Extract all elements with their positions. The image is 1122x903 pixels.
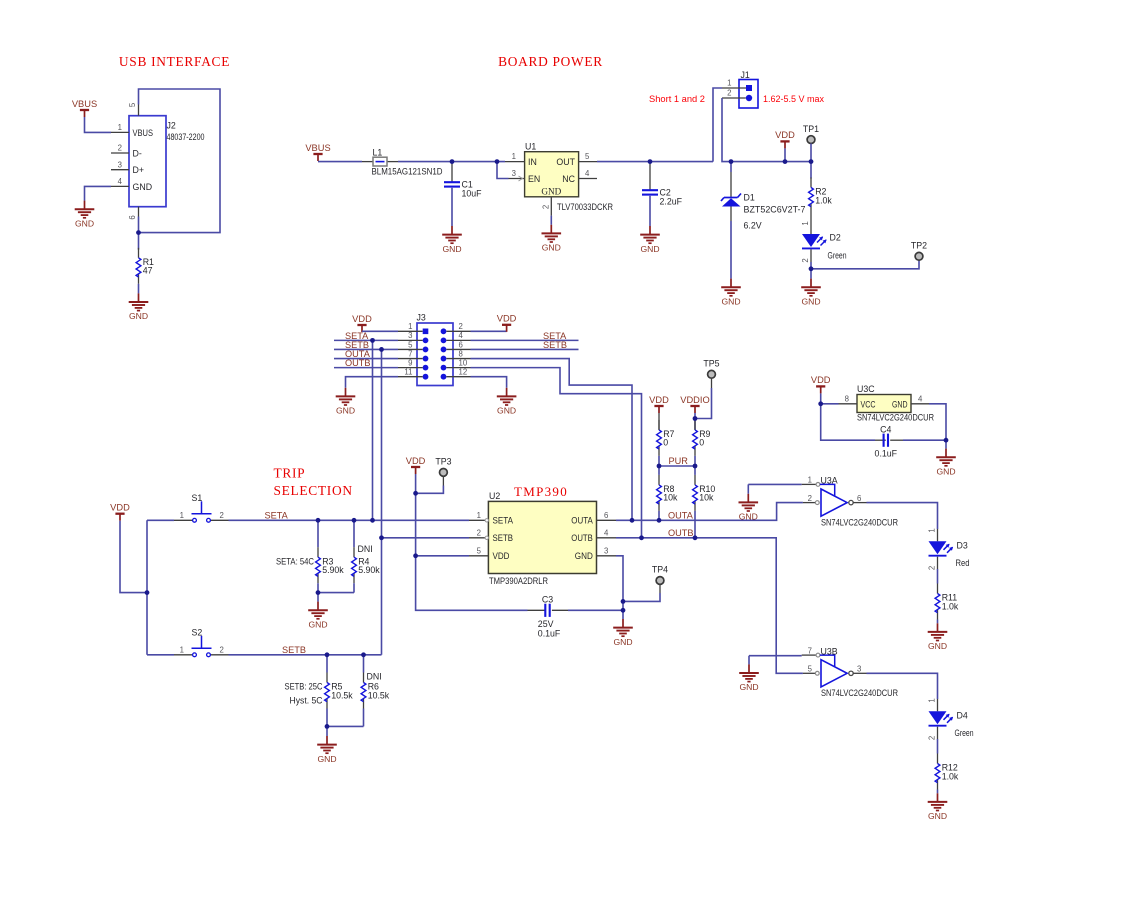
- wire rail to S2: [147, 654, 174, 656]
- LED D2 Green: [801, 232, 847, 268]
- resistor R1 47: [136, 248, 154, 284]
- node U2 VDD tap: [413, 553, 418, 558]
- label Hyst. 5C: [290, 696, 324, 706]
- node SETA/J3 tap: [370, 518, 375, 523]
- svg-text:D4: D4: [957, 710, 968, 720]
- wire J3 pin2 to VDD: [471, 330, 507, 332]
- svg-text:TP2: TP2: [911, 241, 927, 251]
- wire OUTA row to U3A: [616, 503, 803, 521]
- wire C4 to GND: [945, 440, 947, 448]
- svg-text:BZT52C6V2T-7: BZT52C6V2T-7: [744, 204, 806, 214]
- node SETB vertical tap: [379, 347, 384, 352]
- power VBUS (USB): [72, 99, 97, 117]
- svg-text:6.2V: 6.2V: [744, 220, 762, 230]
- switch S1: [174, 493, 229, 522]
- svg-text:SETA: SETA: [265, 511, 289, 521]
- svg-text:GND: GND: [928, 641, 947, 651]
- svg-text:11: 11: [404, 368, 412, 377]
- svg-text:GND: GND: [936, 466, 955, 476]
- svg-text:8: 8: [845, 394, 849, 403]
- wire to TP2: [811, 260, 919, 269]
- svg-text:0.1uF: 0.1uF: [538, 629, 561, 639]
- svg-text:D-: D-: [133, 148, 142, 158]
- wire TP4 to GND node: [623, 584, 660, 601]
- svg-text:GND: GND: [133, 182, 153, 192]
- wire SETA row: [229, 519, 470, 521]
- svg-text:0: 0: [699, 438, 704, 448]
- svg-text:OUTA: OUTA: [571, 516, 593, 526]
- jumper J1: [722, 70, 758, 108]
- svg-text:VDDIO: VDDIO: [680, 395, 709, 405]
- label SETA: 54C: [276, 556, 315, 566]
- node rail junction: [145, 590, 150, 595]
- power VDD (J3 left): [352, 314, 372, 332]
- net label PUR: [669, 456, 689, 466]
- header J3: [398, 312, 471, 385]
- wire VDD to U2 pin5: [416, 555, 469, 557]
- svg-text:1.0k: 1.0k: [815, 195, 832, 205]
- resistor R10 10k: [693, 466, 716, 538]
- svg-text:5: 5: [477, 546, 482, 555]
- svg-text:2: 2: [118, 144, 122, 153]
- node OUTA/J3 tap: [630, 518, 635, 523]
- LED D3 Red: [928, 528, 970, 583]
- svg-text:GND: GND: [317, 754, 336, 764]
- wire J2 pin6 down: [138, 217, 140, 250]
- node EN tap: [495, 159, 500, 164]
- svg-text:0.1uF: 0.1uF: [875, 449, 898, 459]
- svg-text:GND: GND: [575, 551, 593, 561]
- svg-text:IN: IN: [528, 157, 537, 167]
- wire U3A OE to GND: [748, 484, 801, 493]
- svg-text:2: 2: [541, 205, 550, 209]
- resistor R2 1.0k: [801, 162, 832, 234]
- node R3 top: [316, 518, 321, 523]
- svg-text:SN74LVC2G240DCUR: SN74LVC2G240DCUR: [821, 517, 898, 527]
- svg-text:SETA: 54C: SETA: 54C: [276, 556, 315, 566]
- svg-text:1: 1: [180, 511, 184, 520]
- node C4/GND tap: [944, 438, 949, 443]
- svg-text:47: 47: [143, 266, 153, 276]
- LED D4 Green: [928, 698, 974, 753]
- svg-text:2: 2: [928, 736, 937, 740]
- svg-text:TLV70033DCKR: TLV70033DCKR: [557, 202, 613, 212]
- resistor R8 10k: [657, 466, 678, 520]
- node R4 top: [352, 518, 357, 523]
- wire to GND (R5/R6): [326, 726, 328, 736]
- svg-text:0: 0: [663, 438, 668, 448]
- resistor R12 1.0k: [935, 754, 959, 794]
- node TP4 tap: [621, 599, 626, 604]
- svg-text:OUTA: OUTA: [668, 511, 694, 521]
- wire U3C bypass loop right: [903, 404, 946, 440]
- svg-text:VBUS: VBUS: [72, 99, 97, 109]
- power VDD (U2): [406, 456, 426, 474]
- svg-text:1: 1: [512, 152, 516, 161]
- svg-text:D1: D1: [744, 192, 755, 202]
- svg-text:10uF: 10uF: [462, 189, 483, 199]
- node VDD stem tap: [783, 159, 788, 164]
- svg-text:J1: J1: [741, 70, 750, 80]
- node R6 top: [361, 652, 366, 657]
- svg-text:10.5k: 10.5k: [331, 690, 353, 700]
- svg-text:OUT: OUT: [556, 157, 575, 167]
- svg-text:VBUS: VBUS: [305, 143, 330, 153]
- wire PUR net: [659, 465, 695, 467]
- connector J2 48037-2200: [111, 102, 205, 220]
- svg-text:J2: J2: [167, 121, 176, 131]
- svg-text:3: 3: [408, 331, 412, 340]
- wire U3A out to D3: [867, 503, 938, 529]
- node C3 tap: [621, 608, 626, 613]
- wire VBUS to L1: [318, 161, 362, 163]
- title TRIP SELECTION: [274, 466, 353, 498]
- switch S2: [174, 628, 229, 657]
- resistor R11 1.0k: [935, 584, 959, 624]
- power VDD (U3C): [811, 375, 831, 393]
- wire VDD to J3 pin1: [362, 330, 398, 332]
- svg-text:GND: GND: [739, 512, 758, 522]
- wire R6 bottom to R5 bottom: [327, 725, 364, 727]
- ferrite bead L1 BLM15AG121SN1D: [362, 147, 443, 176]
- node OUTB/R10 tap: [693, 535, 698, 540]
- resistor R7 0: [657, 413, 675, 466]
- resistor R9 0: [693, 419, 711, 467]
- node TP1/R2 tap: [809, 159, 814, 164]
- resistor R6 10.5k (DNI): [361, 655, 390, 727]
- wire R4 bottom to R3 bottom: [318, 592, 354, 594]
- ground (below R1): [129, 293, 149, 321]
- svg-text:VDD: VDD: [497, 314, 517, 324]
- ground (below C1): [442, 226, 462, 254]
- ground (U3A OE): [739, 494, 759, 522]
- title TMP390: [514, 484, 568, 499]
- svg-text:TP1: TP1: [803, 124, 819, 134]
- net label OUTA (J3 left): [345, 349, 371, 359]
- svg-text:10k: 10k: [699, 493, 714, 503]
- ground (below R3/R4): [308, 602, 328, 630]
- wire SETB down to trip row: [381, 349, 383, 654]
- svg-text:3: 3: [604, 546, 608, 555]
- ground (USB shield GND): [75, 201, 95, 229]
- svg-text:SETB: SETB: [543, 340, 567, 350]
- wire SETA (J3 pin4 right): [471, 339, 579, 341]
- node R5 top: [325, 652, 330, 657]
- ground (below D1): [721, 279, 741, 307]
- node SETB/U2 tap: [379, 535, 384, 540]
- svg-text:2: 2: [808, 494, 812, 503]
- zener D1 BZT52C6V2T-7 6.2V: [721, 162, 806, 231]
- wire SETB (J3 pin6 right): [471, 348, 579, 350]
- node SETA vertical tap: [370, 338, 375, 343]
- svg-text:7: 7: [808, 646, 812, 655]
- svg-text:1: 1: [477, 511, 481, 520]
- svg-text:2: 2: [477, 528, 481, 537]
- svg-text:OUTB: OUTB: [571, 533, 593, 543]
- svg-text:SELECTION: SELECTION: [274, 483, 353, 498]
- capacitor C4 0.1uF: [875, 424, 903, 458]
- svg-text:4: 4: [118, 177, 123, 186]
- svg-text:1: 1: [118, 123, 122, 132]
- ground (below C2): [640, 226, 660, 254]
- ground (J3 left): [336, 388, 356, 416]
- svg-text:GND: GND: [308, 619, 327, 629]
- ground (below U1): [542, 225, 562, 253]
- wire OUTA (J3 pin7 left): [334, 358, 398, 360]
- svg-text:1.0k: 1.0k: [942, 601, 959, 611]
- wire SETB to U2 pin2: [382, 537, 470, 539]
- svg-text:GND: GND: [928, 811, 947, 821]
- wire SETB row: [229, 654, 382, 656]
- node R5/R6 bottom junction: [325, 724, 330, 729]
- svg-text:Hyst. 5C: Hyst. 5C: [290, 696, 324, 706]
- svg-text:1: 1: [928, 698, 937, 702]
- svg-text:D+: D+: [133, 165, 145, 175]
- svg-text:TMP390A2DRLR: TMP390A2DRLR: [489, 576, 548, 586]
- testpoint TP1: [803, 124, 819, 162]
- node OUTB/J3 tap: [639, 535, 644, 540]
- svg-text:6: 6: [857, 494, 861, 503]
- label Short 1 and 2: [649, 94, 705, 104]
- svg-text:5: 5: [128, 102, 137, 107]
- wire TP5 to VDDIO: [695, 378, 712, 418]
- power VDD (board): [775, 130, 795, 161]
- ground (below R11): [928, 623, 948, 651]
- wire U3B out to D4: [867, 673, 938, 699]
- ground (below R12): [928, 793, 948, 821]
- svg-text:DNI: DNI: [358, 544, 373, 554]
- svg-text:5: 5: [585, 152, 590, 161]
- wire R1 to GND: [138, 284, 140, 294]
- power VDD (trip): [110, 503, 130, 521]
- net label SETA (J3 right): [543, 331, 567, 341]
- svg-text:5: 5: [408, 340, 413, 349]
- svg-text:6: 6: [459, 340, 463, 349]
- svg-text:1: 1: [801, 221, 810, 225]
- svg-text:D3: D3: [957, 540, 968, 550]
- node VDDIO/TP5 tap: [693, 416, 698, 421]
- svg-text:4: 4: [585, 169, 590, 178]
- svg-text:VDD: VDD: [110, 503, 130, 513]
- svg-text:DNI: DNI: [367, 672, 382, 682]
- svg-text:USB INTERFACE: USB INTERFACE: [119, 54, 230, 69]
- node C1 tap: [450, 159, 455, 164]
- power VBUS (board): [305, 143, 330, 161]
- svg-text:10.5k: 10.5k: [368, 690, 390, 700]
- svg-text:GND: GND: [801, 296, 820, 306]
- svg-text:GND: GND: [542, 243, 561, 253]
- node D2 cathode junction: [809, 266, 814, 271]
- label SETB: 25C: [285, 682, 324, 692]
- wire VDD column to C3: [416, 474, 528, 610]
- svg-text:GND: GND: [721, 296, 740, 306]
- svg-text:2: 2: [459, 322, 463, 331]
- regulator U1 TLV70033DCKR: [505, 141, 613, 215]
- svg-text:TMP390: TMP390: [514, 484, 568, 499]
- wire SETB (J3 pin5 left): [334, 348, 398, 350]
- wire VDD to switch rail: [120, 521, 147, 593]
- node C2 tap: [648, 159, 653, 164]
- svg-text:2: 2: [928, 566, 937, 570]
- wire VBUS to J2 pin1: [85, 117, 112, 132]
- wire TP3 to VDD column: [416, 476, 444, 493]
- svg-text:SN74LVC2G240DCUR: SN74LVC2G240DCUR: [857, 413, 934, 423]
- svg-text:SETB: 25C: SETB: 25C: [285, 682, 324, 692]
- svg-text:SETB: SETB: [282, 645, 306, 655]
- svg-text:J3: J3: [417, 312, 426, 322]
- wire J3 pin8 route to OUTA: [471, 359, 633, 521]
- wire D2 to GND: [810, 269, 812, 279]
- wire OUTB (J3 pin9 left): [334, 367, 398, 369]
- capacitor C3 0.1uF 25V: [528, 595, 569, 639]
- IC U2 TMP390A2DRLR: [469, 491, 616, 586]
- svg-text:TP3: TP3: [435, 457, 451, 467]
- svg-text:OUTB: OUTB: [668, 528, 694, 538]
- svg-text:U3C: U3C: [857, 384, 875, 394]
- title USB INTERFACE: [119, 54, 230, 69]
- power VDD (R7): [649, 395, 669, 413]
- svg-text:3: 3: [118, 160, 122, 169]
- testpoint TP4: [652, 565, 668, 585]
- svg-text:SETA: SETA: [493, 516, 514, 526]
- svg-text:4: 4: [459, 331, 464, 340]
- svg-text:BLM15AG121SN1D: BLM15AG121SN1D: [372, 167, 443, 177]
- svg-text:C3: C3: [542, 595, 553, 605]
- svg-text:GND: GND: [75, 218, 94, 228]
- label 1.62-5.5 V max: [763, 94, 824, 104]
- wire U1 GND pin down: [550, 216, 552, 225]
- svg-text:8: 8: [459, 349, 463, 358]
- net label OUTA: [668, 511, 694, 521]
- wire J3 pin11 to GND: [346, 377, 399, 388]
- net label OUTB: [668, 528, 694, 538]
- node pin6/R1 junction: [136, 230, 141, 235]
- svg-text:VDD: VDD: [649, 395, 669, 405]
- svg-text:1.0k: 1.0k: [942, 771, 959, 781]
- net label SETA (J3 left): [345, 331, 369, 341]
- wire U1 OUT to J1 pin1: [597, 88, 722, 162]
- svg-text:10: 10: [459, 358, 468, 367]
- wire J3 pin10 route to OUTB: [471, 368, 642, 538]
- power VDD (J3 right): [497, 314, 517, 332]
- svg-text:Green: Green: [955, 728, 974, 738]
- testpoint TP3: [435, 457, 451, 477]
- wire EN branch: [497, 162, 509, 179]
- resistor R5 10.5k: [325, 655, 354, 727]
- wire J3 pin12 to GND: [471, 377, 507, 388]
- node OUTA/R8 tap: [657, 518, 662, 523]
- svg-text:9: 9: [408, 358, 412, 367]
- ground (below R5/R6): [317, 736, 337, 764]
- svg-text:6: 6: [128, 215, 137, 219]
- svg-text:PUR: PUR: [669, 456, 689, 466]
- svg-text:VCC: VCC: [861, 399, 877, 409]
- wire J2 pin4 to GND: [85, 186, 112, 200]
- svg-text:GND: GND: [442, 244, 461, 254]
- svg-text:VDD: VDD: [775, 130, 795, 140]
- svg-text:VDD: VDD: [493, 551, 510, 561]
- svg-text:4: 4: [918, 394, 923, 403]
- svg-text:GND: GND: [640, 244, 659, 254]
- net label SETA (trip): [265, 511, 289, 521]
- node PUR right: [693, 464, 698, 469]
- wire J1 pin2 to VDD rail: [722, 98, 811, 162]
- wire L1 to U1 IN: [398, 161, 505, 163]
- svg-text:3: 3: [512, 169, 516, 178]
- svg-text:L1: L1: [373, 147, 383, 157]
- svg-text:TP4: TP4: [652, 565, 668, 575]
- wire switch rail: [146, 520, 148, 655]
- svg-text:GND: GND: [129, 311, 148, 321]
- svg-text:2: 2: [220, 646, 224, 655]
- svg-text:7: 7: [408, 349, 412, 358]
- svg-text:Green: Green: [828, 250, 847, 260]
- wire C3 to GND node: [568, 609, 623, 611]
- svg-text:2: 2: [727, 89, 731, 98]
- net label SETB (J3 left): [345, 340, 369, 350]
- svg-text:U1: U1: [525, 141, 536, 151]
- svg-text:GND: GND: [892, 399, 908, 409]
- ground (below D2): [801, 279, 821, 307]
- svg-text:Red: Red: [956, 558, 970, 568]
- svg-text:TP5: TP5: [703, 359, 719, 369]
- svg-text:GND: GND: [613, 637, 632, 647]
- wire VDDIO stem: [694, 413, 696, 419]
- testpoint TP5: [703, 359, 719, 379]
- svg-text:3: 3: [857, 665, 861, 674]
- svg-text:U3A: U3A: [821, 476, 838, 486]
- svg-text:GND: GND: [497, 406, 516, 416]
- svg-text:C4: C4: [880, 424, 891, 434]
- svg-text:U3B: U3B: [821, 646, 838, 656]
- svg-text:6: 6: [604, 511, 608, 520]
- svg-text:1: 1: [808, 476, 812, 485]
- IC U3C SN74LVC2G240DCUR power pins: [839, 384, 935, 422]
- svg-text:2.2uF: 2.2uF: [660, 197, 683, 207]
- svg-text:VDD: VDD: [811, 375, 831, 385]
- svg-text:D2: D2: [830, 232, 841, 242]
- capacitor C2 2.2uF: [642, 162, 683, 226]
- resistor R4 5.90k (DNI): [352, 520, 381, 592]
- ground (U3B OE): [739, 664, 759, 692]
- op-amp U3A (buffer): [802, 476, 898, 528]
- svg-text:GND: GND: [541, 186, 561, 196]
- svg-text:1: 1: [727, 79, 731, 88]
- svg-text:10k: 10k: [663, 493, 678, 503]
- svg-text:VBUS: VBUS: [133, 128, 154, 138]
- svg-text:SN74LVC2G240DCUR: SN74LVC2G240DCUR: [821, 688, 898, 698]
- svg-text:TRIP: TRIP: [274, 466, 306, 481]
- power VDDIO (R9): [680, 395, 709, 413]
- svg-text:VDD: VDD: [406, 456, 426, 466]
- svg-text:25V: 25V: [538, 619, 554, 629]
- net label OUTB (J3 left): [345, 358, 371, 368]
- node R3/R4 bottom junction: [316, 590, 321, 595]
- svg-text:1: 1: [180, 646, 184, 655]
- wire J2 pin5 loop to pin6 net: [139, 89, 221, 233]
- wire OUTB row to U3B: [616, 538, 803, 674]
- op-amp U3B (buffer): [802, 646, 898, 698]
- svg-text:BOARD POWER: BOARD POWER: [498, 54, 603, 69]
- svg-text:2: 2: [801, 258, 810, 262]
- net label SETB (trip): [282, 645, 306, 655]
- svg-text:VDD: VDD: [352, 314, 372, 324]
- testpoint TP2: [911, 241, 927, 261]
- capacitor C1 10uF: [444, 162, 482, 226]
- svg-text:GND: GND: [739, 682, 758, 692]
- svg-text:12: 12: [459, 368, 468, 377]
- svg-text:1.62-5.5 V max: 1.62-5.5 V max: [763, 94, 824, 104]
